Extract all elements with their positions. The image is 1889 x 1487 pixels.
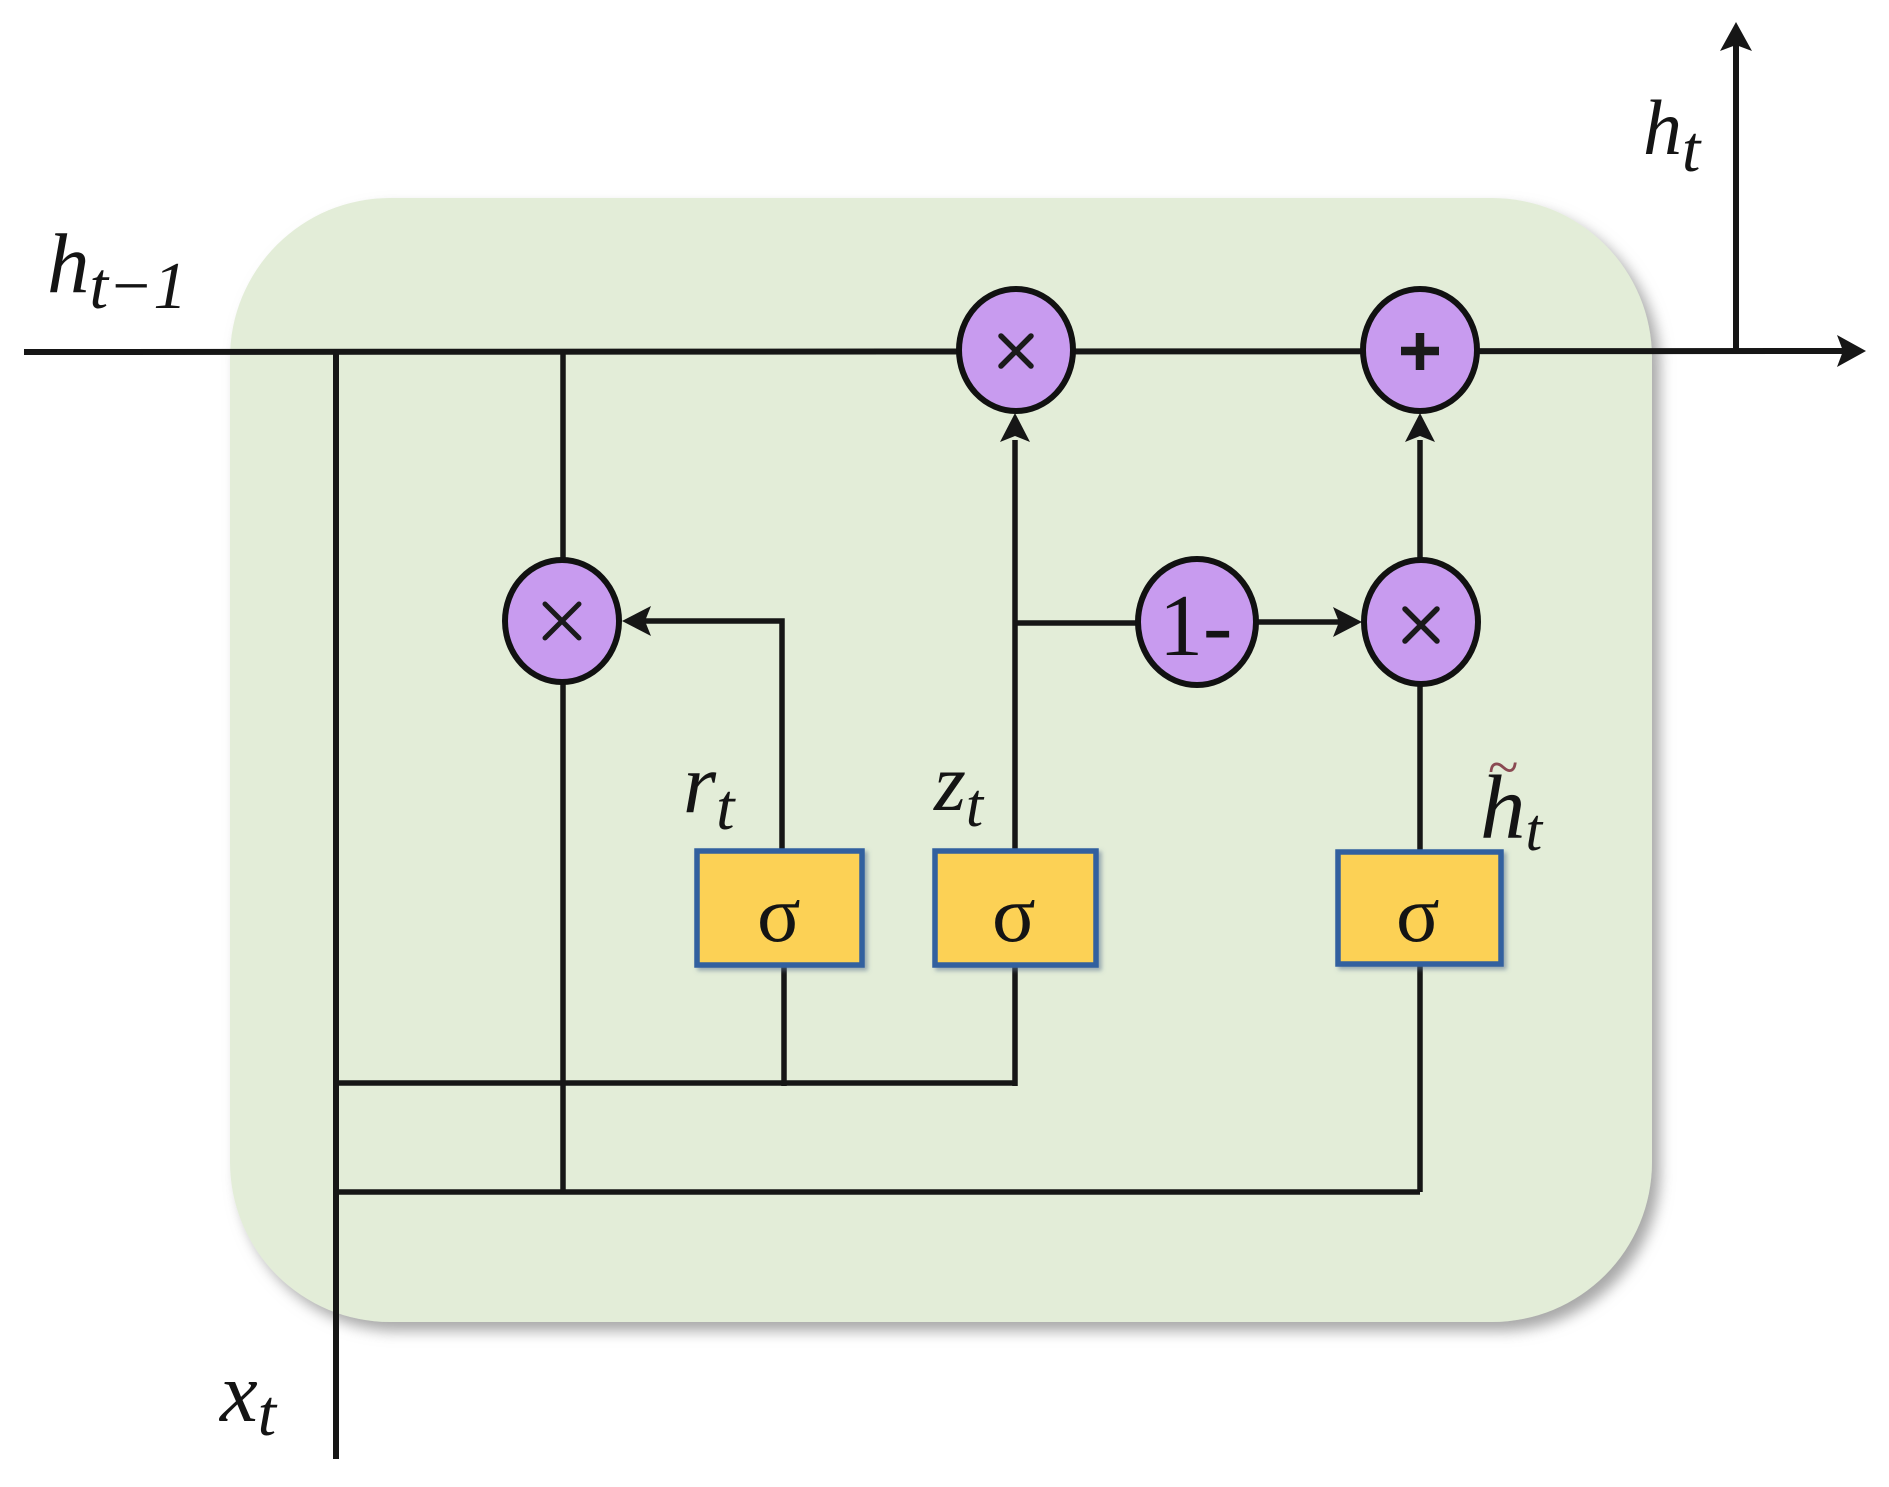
svg-text:ht: ht (1643, 84, 1702, 186)
left multiply node (reset) (505, 560, 619, 682)
svg-text:ht−1: ht−1 (47, 217, 187, 323)
wire: branch from z line to 1- node (1015, 620, 1138, 626)
wire: lower bus to sigma inputs (336, 1080, 1015, 1086)
svg-text:1-: 1- (1159, 578, 1232, 675)
wire: bottom bus to candidate sigma (336, 1189, 1420, 1195)
svg-text:σ: σ (1396, 869, 1440, 959)
sigma box candidate (1338, 852, 1501, 964)
svg-text:σ: σ (757, 869, 801, 959)
wire: z gate vertical line up to first multiply node (1012, 440, 1018, 851)
right multiply node (update) (1364, 560, 1478, 684)
svg-text:~: ~ (1488, 737, 1518, 799)
multiply node on h line (959, 289, 1073, 411)
sigma box r gate (697, 851, 862, 965)
arrowhead right of h line (1837, 335, 1866, 367)
arrowhead top of output axis (1720, 22, 1752, 51)
wire: output vertical axis h(t) (1733, 45, 1739, 352)
wire: h(t-1) horizontal line (24, 351, 1845, 352)
wire: sigma1 output down (781, 965, 787, 1086)
arrowhead into left multiply node (622, 606, 651, 636)
arrowhead into plus node (1405, 413, 1435, 442)
wire: right multiply node down to sigma3 box (1417, 685, 1423, 852)
arrowhead into right multiply node (1333, 607, 1362, 637)
wire: candidate sigma bottom riser (1417, 964, 1423, 1192)
1- node (1138, 559, 1256, 685)
svg-text:xt: xt (218, 1346, 278, 1450)
arrowhead into first multiply node (1000, 413, 1030, 442)
wire: 1- node to right multiply node (1258, 619, 1340, 625)
sigma box z gate (935, 851, 1096, 965)
wire: x(t) input vertical line (333, 352, 339, 1459)
wire: sigma2 output down (1012, 965, 1018, 1086)
GRU cell body (green rounded rectangle) (230, 198, 1652, 1322)
wire: candidate line from plus node down through right multiply node (1417, 440, 1423, 560)
wire: vertical through left multiply node (560, 352, 566, 1192)
svg-text:σ: σ (992, 869, 1036, 959)
add node on h line (1363, 289, 1477, 411)
wire: r gate elbow into left multiply node (645, 621, 782, 851)
